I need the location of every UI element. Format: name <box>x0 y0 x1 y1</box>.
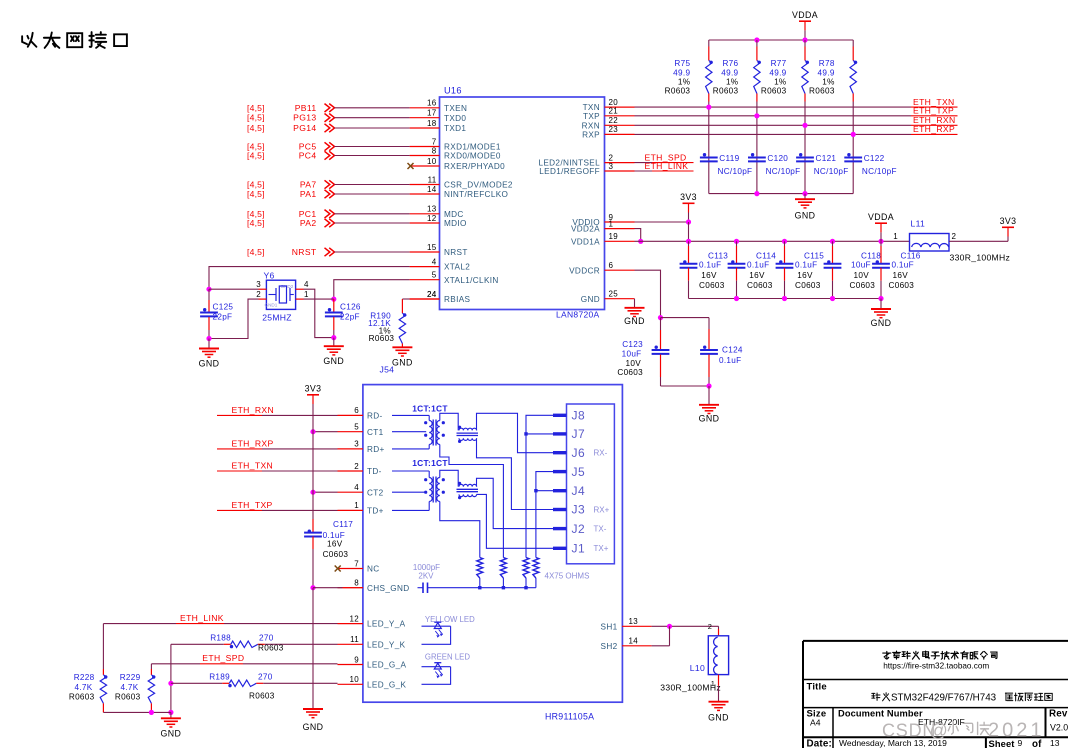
title block Sheet <box>989 738 1060 748</box>
svg-text:ETH_SPD: ETH_SPD <box>202 653 244 663</box>
resistor R76 <box>713 40 761 194</box>
wire R188 to ground rail <box>168 644 173 715</box>
svg-text:C114: C114 <box>756 251 776 260</box>
svg-text:16V: 16V <box>327 540 343 549</box>
svg-text:C0603: C0603 <box>699 281 725 290</box>
wire choke2 top to J2 <box>477 478 554 528</box>
wire crystal pin1 <box>296 290 334 299</box>
svg-text:CSR_DV/MODE2: CSR_DV/MODE2 <box>444 181 513 190</box>
svg-text:R229: R229 <box>120 673 141 682</box>
svg-text:R0603: R0603 <box>809 87 835 96</box>
svg-text:RD+: RD+ <box>367 445 385 454</box>
svg-text:49.9: 49.9 <box>721 69 738 78</box>
svg-text:16V: 16V <box>797 271 813 280</box>
node NRST <box>247 247 410 257</box>
svg-text:4.7K: 4.7K <box>74 683 92 692</box>
svg-text:270: 270 <box>258 673 273 682</box>
svg-text:RXN: RXN <box>582 121 600 130</box>
svg-text:GND: GND <box>581 295 600 304</box>
svg-text:8: 8 <box>432 146 437 155</box>
resistor R229 <box>115 669 156 712</box>
svg-text:HR911105A: HR911105A <box>545 712 594 722</box>
resistor 75 ohm #4 <box>533 558 539 587</box>
capacitor C120 <box>748 153 800 176</box>
wire RD+ to T1 <box>392 445 429 449</box>
capacitor 1000pF 2KV <box>413 563 536 593</box>
svg-text:10V: 10V <box>626 359 642 368</box>
svg-text:CSDN: CSDN <box>882 720 936 740</box>
resistor 75 ohm #1 <box>477 558 483 587</box>
svg-text:24: 24 <box>427 290 437 299</box>
svg-text:R0603: R0603 <box>258 644 284 653</box>
wire J8 J7 to R3 <box>524 415 553 557</box>
svg-text:PA1: PA1 <box>300 189 317 199</box>
connector pin box J1-J8 <box>553 404 614 564</box>
wire T1 secondary top to choke <box>440 413 458 430</box>
svg-text:J6: J6 <box>572 446 586 460</box>
svg-text:https://fire-stm32.taobao.com: https://fire-stm32.taobao.com <box>883 661 989 670</box>
title block Document Number <box>838 709 965 728</box>
svg-text:1%: 1% <box>774 78 786 87</box>
watermark <box>882 719 1045 741</box>
text YELLOW LED <box>425 615 475 624</box>
wire ground rail bottom-left <box>103 710 170 715</box>
svg-text:22pF: 22pF <box>340 313 360 322</box>
node PG13 <box>247 113 410 123</box>
svg-text:4.7K: 4.7K <box>120 683 138 692</box>
svg-text:ETH_RXP: ETH_RXP <box>913 124 955 134</box>
svg-text:3: 3 <box>256 280 261 289</box>
diode yellow LED <box>422 622 451 644</box>
svg-text:RXP: RXP <box>582 131 600 140</box>
diode green LED <box>422 663 451 685</box>
svg-text:GND: GND <box>392 358 413 368</box>
svg-text:J4: J4 <box>572 484 586 498</box>
svg-text:C0603: C0603 <box>747 281 773 290</box>
svg-text:XTAL2: XTAL2 <box>444 263 470 272</box>
capacitor C116 <box>872 241 921 298</box>
svg-text:15: 15 <box>427 243 437 252</box>
svg-text:C123: C123 <box>622 340 643 349</box>
svg-text:MDIO: MDIO <box>444 219 467 228</box>
svg-text:Rev: Rev <box>1049 709 1068 720</box>
ground pin25 <box>624 299 645 326</box>
svg-text:J1: J1 <box>572 542 586 556</box>
svg-text:R0603: R0603 <box>713 87 739 96</box>
no-connect X on pin 10 <box>408 163 414 169</box>
ground below R190 <box>392 347 413 367</box>
capacitor C118 <box>824 241 882 298</box>
svg-text:LED_G_K: LED_G_K <box>367 680 407 689</box>
svg-text:[4,5]: [4,5] <box>247 103 265 113</box>
svg-text:NRST: NRST <box>292 247 317 257</box>
title block Size <box>807 709 827 728</box>
svg-text:7: 7 <box>354 559 359 568</box>
svg-text:PC4: PC4 <box>299 151 317 161</box>
text GREEN LED <box>425 653 470 662</box>
svg-text:1CT:1CT: 1CT:1CT <box>412 403 448 413</box>
svg-text:R189: R189 <box>209 673 230 682</box>
resistor R188 <box>171 634 338 653</box>
svg-text:25: 25 <box>609 290 619 299</box>
svg-text:Date:: Date: <box>807 739 833 748</box>
svg-text:R188: R188 <box>210 634 231 643</box>
svg-text:3V3: 3V3 <box>1000 216 1017 226</box>
node PC4 <box>247 151 410 161</box>
power 3V3 left <box>680 192 697 222</box>
svg-text:R0603: R0603 <box>369 334 395 343</box>
wire crystal pin2 <box>209 290 266 338</box>
wire SH1 <box>652 622 719 631</box>
svg-text:4: 4 <box>354 483 359 492</box>
wire TD+ to T2 <box>392 502 429 511</box>
svg-text:1: 1 <box>354 501 359 510</box>
svg-text:5: 5 <box>432 271 437 280</box>
svg-text:3: 3 <box>354 440 359 449</box>
svg-text:C117: C117 <box>333 520 353 529</box>
choke CH2 <box>457 482 479 499</box>
svg-text:1: 1 <box>304 290 309 299</box>
node PC5 <box>247 142 410 152</box>
svg-text:MDC: MDC <box>444 210 464 219</box>
node PB11 <box>247 103 410 113</box>
svg-text:TD-: TD- <box>367 467 382 476</box>
svg-text:3: 3 <box>609 162 614 171</box>
transformer T2 <box>424 477 445 503</box>
svg-text:STM32F429/F767/H743: STM32F429/F767/H743 <box>891 692 997 703</box>
svg-text:LED_Y_A: LED_Y_A <box>367 620 406 629</box>
resistor R75 <box>665 40 713 194</box>
svg-text:GND: GND <box>624 316 645 326</box>
svg-text:16V: 16V <box>893 271 909 280</box>
svg-text:C116: C116 <box>901 251 921 260</box>
svg-text:0.1uF: 0.1uF <box>719 356 741 365</box>
svg-text:4: 4 <box>432 257 437 266</box>
svg-text:LED_Y_K: LED_Y_K <box>367 640 406 649</box>
svg-text:R0603: R0603 <box>115 693 141 702</box>
svg-text:L10: L10 <box>690 663 705 673</box>
svg-text:NC/10pF: NC/10pF <box>814 167 849 176</box>
node PA7 <box>247 180 410 190</box>
svg-text:R0603: R0603 <box>665 87 691 96</box>
svg-text:R77: R77 <box>771 59 787 68</box>
power VDDA top <box>792 10 818 40</box>
svg-text:GREEN LED: GREEN LED <box>425 653 470 662</box>
svg-text:VDDCR: VDDCR <box>569 266 600 275</box>
svg-text:J54: J54 <box>380 365 395 375</box>
resistor R78 <box>809 40 857 194</box>
svg-text:20: 20 <box>609 98 619 107</box>
svg-text:1%: 1% <box>822 78 834 87</box>
svg-text:1%: 1% <box>726 78 738 87</box>
svg-text:5: 5 <box>354 423 359 432</box>
svg-text:C125: C125 <box>213 303 234 312</box>
svg-text:13: 13 <box>629 617 639 626</box>
svg-text:A4: A4 <box>810 718 821 728</box>
svg-text:10uF: 10uF <box>622 350 642 359</box>
resistor R189 <box>171 673 338 701</box>
svg-text:8: 8 <box>354 579 359 588</box>
wire ETH_TXN <box>635 97 958 110</box>
svg-text:1: 1 <box>711 679 715 688</box>
capacitor C126 <box>325 299 361 340</box>
svg-text:TXP: TXP <box>583 112 600 121</box>
svg-text:2: 2 <box>256 290 261 299</box>
transformer T2 label <box>412 458 448 468</box>
svg-text:C113: C113 <box>708 251 728 260</box>
svg-text:VDDA: VDDA <box>868 212 894 222</box>
svg-text:25MHZ: 25MHZ <box>262 312 292 322</box>
svg-text:PA2: PA2 <box>300 218 317 228</box>
svg-text:C115: C115 <box>804 251 824 260</box>
text 4X75 OHMS <box>545 572 590 581</box>
svg-text:ETH_LINK: ETH_LINK <box>180 613 224 623</box>
svg-text:C0603: C0603 <box>850 281 876 290</box>
wire T1 secondary bottom to R2 <box>440 445 504 558</box>
svg-text:V2.0: V2.0 <box>1050 723 1068 733</box>
wire choke2 bottom to J1 <box>477 494 554 548</box>
svg-text:2021: 2021 <box>988 719 1045 741</box>
svg-text:ETH_TXP: ETH_TXP <box>913 106 954 116</box>
svg-text:VDDA: VDDA <box>792 10 818 20</box>
svg-text:0.1uF: 0.1uF <box>699 260 721 269</box>
svg-text:LAN8720A: LAN8720A <box>556 310 600 320</box>
svg-text:9: 9 <box>354 655 359 664</box>
svg-text:J5: J5 <box>572 465 586 479</box>
wire pin9 to 3V3 column <box>635 219 692 241</box>
svg-text:PA7: PA7 <box>300 180 317 190</box>
svg-text:Title: Title <box>807 682 827 693</box>
svg-text:49.9: 49.9 <box>673 69 690 78</box>
svg-text:SH1: SH1 <box>601 622 618 631</box>
svg-text:2KV: 2KV <box>418 571 434 580</box>
resistor R190 <box>368 290 439 348</box>
ground below C124 <box>699 386 720 424</box>
svg-text:R76: R76 <box>722 59 738 68</box>
svg-text:12: 12 <box>427 214 437 223</box>
svg-text:GND: GND <box>303 722 324 732</box>
resistor 75 ohm #2 <box>500 558 506 587</box>
svg-text:1: 1 <box>609 219 614 228</box>
wire CT1 to T1 <box>392 431 426 433</box>
choke CH1 <box>457 426 479 443</box>
wire ETH_RXP <box>635 124 958 137</box>
no-connect X on pin 7 <box>335 566 341 572</box>
U16 right pins <box>538 98 634 304</box>
svg-text:[4,5]: [4,5] <box>247 113 265 123</box>
svg-text:TD+: TD+ <box>367 507 384 516</box>
svg-text:RD-: RD- <box>367 412 383 421</box>
svg-text:LED1/REGOFF: LED1/REGOFF <box>539 167 600 176</box>
HR911105A right pins <box>601 617 652 651</box>
svg-text:14: 14 <box>427 185 437 194</box>
svg-text:10: 10 <box>350 675 360 684</box>
wire ETH_SPD at chip <box>635 152 694 162</box>
svg-text:CT2: CT2 <box>367 488 384 497</box>
node PG14 <box>247 123 410 133</box>
svg-text:GND: GND <box>871 318 892 328</box>
wire XTAL1 net <box>331 280 409 302</box>
svg-text:R75: R75 <box>674 59 690 68</box>
svg-text:J2: J2 <box>572 522 586 536</box>
svg-text:GND: GND <box>699 414 720 424</box>
svg-text:Y6: Y6 <box>264 271 275 281</box>
svg-text:C0603: C0603 <box>795 281 821 290</box>
capacitor C114 <box>728 241 777 298</box>
svg-text:10V: 10V <box>854 271 870 280</box>
svg-text:RX+: RX+ <box>594 505 610 514</box>
ground below C126 <box>323 338 344 367</box>
wire SH2 <box>652 626 670 646</box>
svg-text:NC/10pF: NC/10pF <box>766 167 801 176</box>
svg-text:49.9: 49.9 <box>818 69 835 78</box>
svg-text:22: 22 <box>609 116 619 125</box>
title block Date <box>807 738 948 748</box>
svg-text:2: 2 <box>354 462 359 471</box>
svg-text:YELLOW LED: YELLOW LED <box>425 615 475 624</box>
ground below L10 <box>708 675 729 723</box>
power 3V3 column <box>305 384 322 519</box>
svg-text:R0603: R0603 <box>761 87 787 96</box>
wire ETH_TXN lower <box>217 461 338 472</box>
svg-text:PB11: PB11 <box>295 103 317 113</box>
svg-text:C124: C124 <box>722 346 743 355</box>
capacitor C122 <box>844 153 896 176</box>
capacitor C124 <box>700 329 743 386</box>
svg-text:19: 19 <box>609 232 619 241</box>
svg-text:C120: C120 <box>767 154 788 163</box>
capacitor C121 <box>796 153 848 176</box>
wire crystal pin3 <box>209 280 266 289</box>
svg-text:2: 2 <box>708 622 712 631</box>
svg-text:NC/10pF: NC/10pF <box>718 167 753 176</box>
svg-text:L11: L11 <box>911 219 926 229</box>
svg-text:GND: GND <box>161 728 182 738</box>
svg-text:22pF: 22pF <box>213 313 233 322</box>
power 3V3 right <box>1000 216 1017 227</box>
svg-text:LED_G_A: LED_G_A <box>367 661 407 670</box>
wire ETH_TXP lower <box>217 500 338 511</box>
wire ETH_SPD <box>151 653 337 669</box>
wire ETH_LINK <box>103 613 337 669</box>
svg-text:TXD1: TXD1 <box>444 124 466 133</box>
svg-text:SH2: SH2 <box>601 642 618 651</box>
resistor 75 ohm #3 <box>523 558 529 587</box>
svg-text:6: 6 <box>609 261 614 270</box>
wire choke1 bottom to J3 <box>477 438 554 509</box>
svg-text:4: 4 <box>304 280 309 289</box>
svg-text:0.1uF: 0.1uF <box>795 260 817 269</box>
resistor R77 <box>761 40 809 194</box>
svg-text:R78: R78 <box>819 59 835 68</box>
svg-text:1CT:1CT: 1CT:1CT <box>412 458 448 468</box>
svg-text:RBIAS: RBIAS <box>444 295 471 304</box>
wire ETH_RXN <box>635 115 958 128</box>
svg-text:[4,5]: [4,5] <box>247 180 265 190</box>
svg-text:RXER/PHYAD0: RXER/PHYAD0 <box>444 162 505 171</box>
wire L11 to 3V3 <box>949 227 1008 241</box>
svg-text:ETH_TXP: ETH_TXP <box>232 500 273 510</box>
power VDDA right <box>868 212 894 241</box>
resistor R228 <box>69 669 108 712</box>
HR911105A left pins <box>338 406 410 689</box>
node J54 label <box>380 365 395 375</box>
svg-text:R228: R228 <box>74 673 95 682</box>
svg-text:TXEN: TXEN <box>444 104 467 113</box>
ground below C125 <box>199 339 220 369</box>
ground below C117 column <box>303 588 324 732</box>
svg-text:16: 16 <box>427 99 437 108</box>
wire T2 secondary bottom to R1 <box>440 502 480 558</box>
svg-text:C0603: C0603 <box>617 368 643 377</box>
svg-text:270: 270 <box>259 634 274 643</box>
transformer T1 <box>424 420 445 446</box>
svg-text:13: 13 <box>427 205 437 214</box>
capacitor C125 <box>200 289 233 341</box>
wire CHS_GND <box>313 587 363 589</box>
wire CT1 <box>310 429 337 434</box>
svg-text:PG14: PG14 <box>293 123 316 133</box>
ground bottom-left <box>161 712 182 738</box>
wire ETH_TXP <box>635 106 958 119</box>
svg-text:RXD1/MODE1: RXD1/MODE1 <box>444 143 501 152</box>
wire bottom VDD rail <box>689 296 884 301</box>
IC U16 LAN8720A <box>440 86 605 320</box>
svg-text:11: 11 <box>350 635 359 644</box>
svg-text:3V3: 3V3 <box>305 384 322 394</box>
capacitor C119 <box>700 153 752 176</box>
crystal Y6 <box>262 271 295 323</box>
svg-text:23: 23 <box>609 125 619 134</box>
svg-text:3V3: 3V3 <box>680 192 697 202</box>
wire choke1 top to J6 <box>477 413 554 452</box>
svg-text:0.1uF: 0.1uF <box>892 260 914 269</box>
wire RD- to T1 <box>392 415 429 420</box>
svg-text:@: @ <box>930 720 948 740</box>
svg-text:[4,5]: [4,5] <box>247 151 265 161</box>
wire bottom rail of RC network <box>709 191 853 196</box>
svg-text:TXD0: TXD0 <box>444 114 466 123</box>
svg-text:4X75 OHMS: 4X75 OHMS <box>545 572 590 581</box>
inductor L11 <box>893 219 1010 263</box>
wire J5 J4 to R4 <box>534 472 553 558</box>
svg-text:RX-: RX- <box>594 449 608 458</box>
svg-text:C0603: C0603 <box>889 281 915 290</box>
inductor L10 <box>660 626 728 692</box>
svg-text:[4,5]: [4,5] <box>247 247 265 257</box>
wire top rail <box>709 37 853 42</box>
svg-text:C126: C126 <box>340 303 361 312</box>
wire XTAL2 net <box>206 267 409 292</box>
svg-text:Document Number: Document Number <box>838 709 923 719</box>
svg-text:16V: 16V <box>749 271 765 280</box>
svg-text:VDD2A: VDD2A <box>571 225 600 234</box>
wire CT2 to T2 <box>392 491 426 493</box>
wire C123 C124 bottom <box>661 383 712 388</box>
svg-text:[4,5]: [4,5] <box>247 123 265 133</box>
svg-text:TX-: TX- <box>594 524 607 533</box>
U16 left pins <box>410 99 513 305</box>
svg-text:RXD0/MODE0: RXD0/MODE0 <box>444 152 501 161</box>
svg-text:C119: C119 <box>719 154 739 163</box>
svg-text:16V: 16V <box>701 271 717 280</box>
svg-text:ETH_RXP: ETH_RXP <box>232 438 274 448</box>
svg-text:6: 6 <box>354 406 359 415</box>
svg-text:ETH_RXN: ETH_RXN <box>232 405 275 415</box>
svg-text:12: 12 <box>350 614 360 623</box>
title block frame <box>803 641 1068 748</box>
svg-text:CT1: CT1 <box>367 428 384 437</box>
